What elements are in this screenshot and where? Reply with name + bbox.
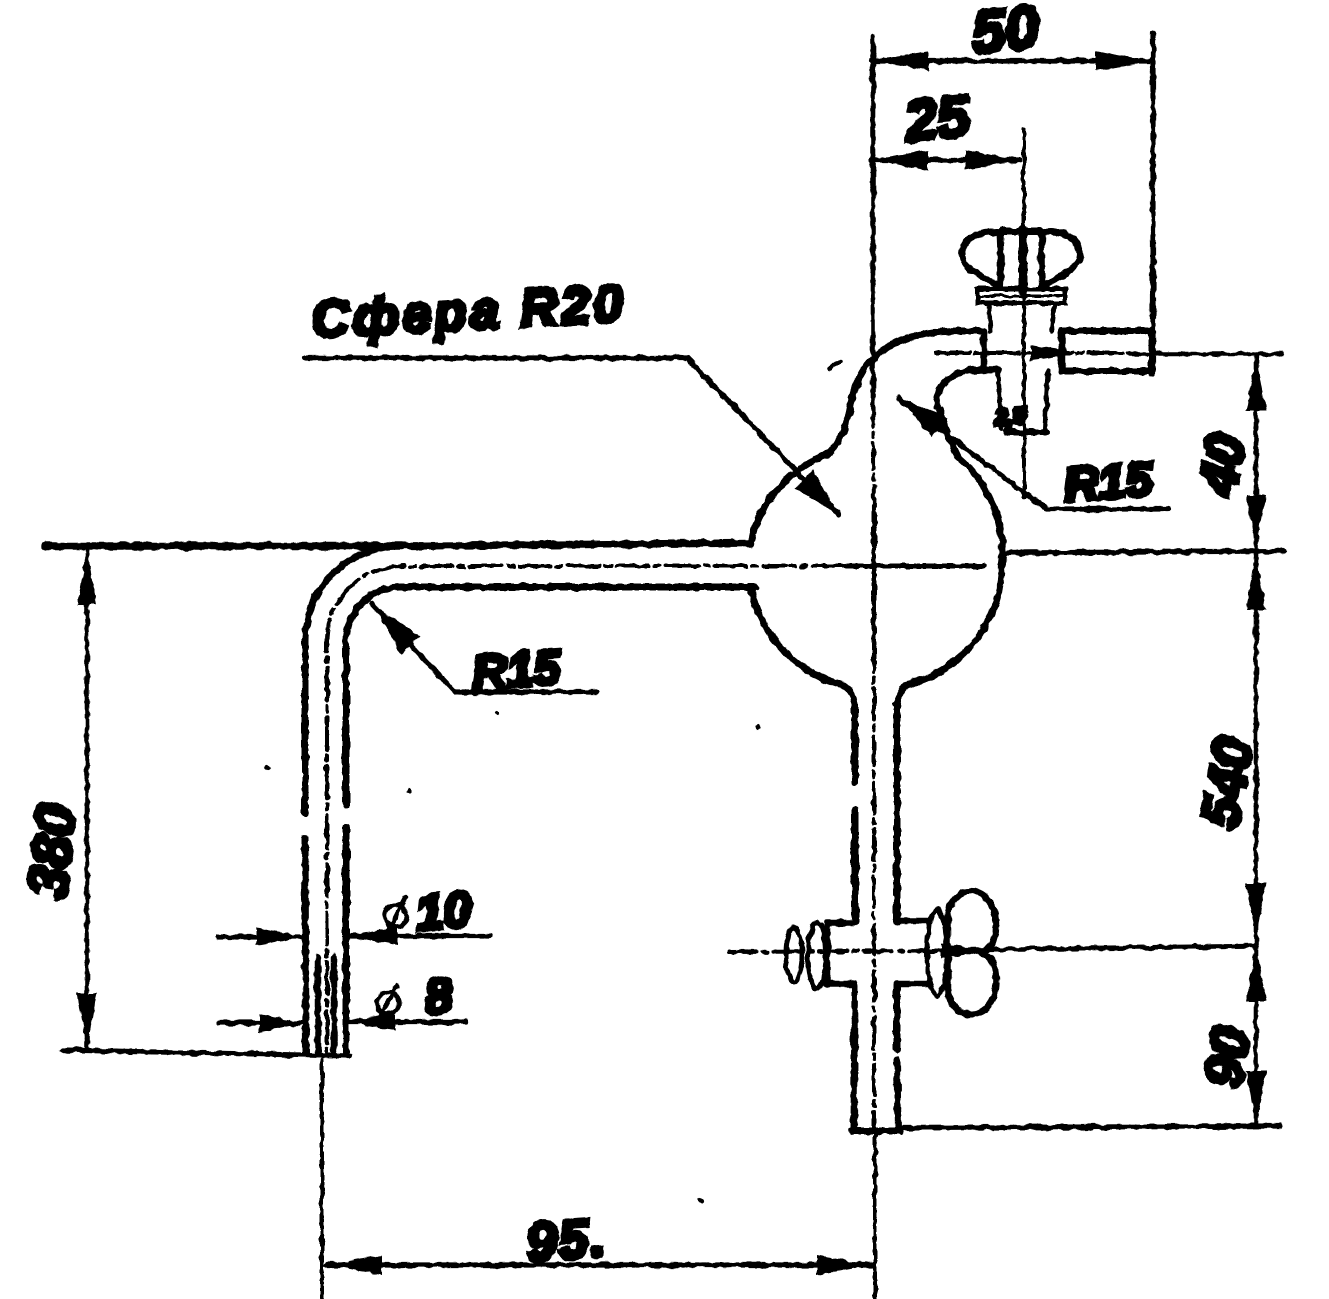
- valve V1 flange: [978, 289, 1065, 303]
- tube left horizontal top edge with extension: [46, 543, 751, 546]
- dimension phi10: [218, 881, 490, 946]
- dimension 540: [1190, 553, 1266, 944]
- tube main end cap: [852, 1128, 901, 1135]
- svg-text:2,5: 2,5: [993, 403, 1027, 430]
- valve V2 flange: [927, 910, 947, 996]
- speck marks: [829, 361, 840, 369]
- tube top horizontal upper edge left segment: [852, 331, 984, 398]
- valve V1 plug tip: [998, 371, 1048, 428]
- label Сфера R20: [305, 275, 840, 516]
- tube left vertical right wall: [343, 641, 350, 1053]
- svg-text:50: 50: [969, 0, 1041, 66]
- valve V2 centerline with arrow: [729, 951, 940, 952]
- dimension 380: [15, 551, 350, 1056]
- label R15 upper: [899, 397, 1168, 512]
- svg-text:380: 380: [15, 802, 87, 902]
- svg-text:90: 90: [1193, 1022, 1263, 1092]
- svg-text:25: 25: [901, 83, 974, 155]
- label R15 lower: [371, 603, 597, 700]
- tube left inner tip walls: [318, 957, 334, 1051]
- tube left bend outer: [305, 546, 400, 641]
- tube end cap: [1149, 328, 1154, 374]
- reference line bottom right: [901, 1126, 1280, 1128]
- svg-text:8: 8: [422, 967, 455, 1025]
- svg-text:95.: 95.: [524, 1207, 609, 1273]
- wire centerline vertical main axis: [873, 36, 875, 1298]
- reference line mid right: [1003, 551, 1284, 553]
- wire centerline horizontal sphere crosshair: [327, 566, 983, 1052]
- tube top horizontal lower edge right segment: [1062, 368, 1149, 375]
- valve V2 handle: [948, 891, 996, 1015]
- dimension 25: [872, 83, 1024, 497]
- svg-text:R15: R15: [1062, 453, 1155, 512]
- dimension phi8: [218, 967, 467, 1032]
- svg-text:10: 10: [413, 881, 473, 942]
- tube top centerline with arrow: [935, 351, 1130, 355]
- stopcock valve V1 handle left wing: [962, 232, 1001, 286]
- sphere R20 body right: [897, 410, 1002, 703]
- tube left horizontal bottom edge: [346, 587, 755, 641]
- valve V1 stem column: [1019, 230, 1028, 292]
- valve V1 stem tick: [1001, 228, 1041, 235]
- tube main vertical left wall: [854, 703, 855, 1131]
- stopcock valve V2 rings: [786, 928, 802, 982]
- valve V1 body: [989, 303, 1055, 331]
- valve V2 barrel: [827, 921, 928, 984]
- dimension 90: [1193, 946, 1266, 1126]
- tube bend inner edge to sphere: [937, 370, 998, 407]
- dimension 50: [872, 0, 1153, 374]
- dimension 95: [322, 1060, 872, 1297]
- valve V1 handle right wing: [1041, 232, 1080, 286]
- sphere R20 body left: [751, 397, 853, 541]
- dimension 40: [1188, 357, 1266, 549]
- tube main vertical right wall: [897, 703, 898, 1131]
- svg-text:40: 40: [1188, 429, 1258, 500]
- tube left vertical left wall: [305, 641, 306, 1053]
- valve V1 barrel: [984, 331, 1062, 371]
- tube top horizontal upper edge right segment: [1062, 328, 1149, 335]
